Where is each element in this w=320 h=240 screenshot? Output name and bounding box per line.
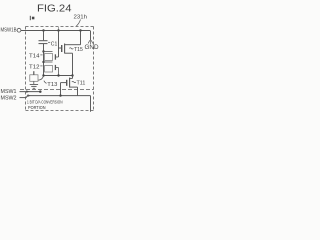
node 1a mark [30,16,34,20]
transistor T13 [30,71,44,84]
leader 231h [76,20,80,27]
wire bottom rail [27,95,91,97]
wire T15 gate feed [59,47,62,49]
node D [42,74,44,76]
svg-text:FIG.24: FIG.24 [37,2,72,14]
dashed box 231h [26,27,94,111]
node F [71,74,73,76]
label T13 [44,81,47,84]
svg-text:T11: T11 [77,80,86,86]
node G [59,94,61,96]
node A [42,29,44,31]
label T15 [69,48,73,49]
svg-text:MSW2: MSW2 [1,96,17,102]
node T12 drain [42,61,44,63]
svg-text:T13: T13 [47,82,57,88]
label C1 [48,41,50,43]
transistor T15 [62,31,81,76]
svg-text:MSW1: MSW1 [1,89,17,95]
svg-text:T15: T15 [74,47,83,53]
ground GND [88,40,93,44]
node B [57,29,59,31]
svg-text:231h: 231h [74,14,88,20]
node C [79,29,81,31]
svg-text:T14: T14 [29,53,40,59]
wire top rail [21,30,90,32]
ground T13 [30,85,38,89]
svg-text:MSW1B: MSW1B [1,28,17,34]
node T14 drain [42,50,44,52]
wire stub [58,27,60,31]
svg-text:T12: T12 [29,64,40,70]
wire left rail [43,44,45,76]
wire C1 top [43,31,45,41]
svg-text:PORTION: PORTION [28,105,46,110]
transistor T12 [44,62,59,76]
transistor T14 [44,52,59,61]
dashed divider [20,89,94,91]
wire mid vertical [58,31,60,58]
node E [57,74,59,76]
transistor T11 [61,76,78,96]
wire output drop [90,96,92,112]
capacitor C1 [39,41,48,44]
svg-text:C1: C1 [51,41,58,47]
svg-text:GND: GND [85,44,100,51]
svg-text:1 BIT D/A CONVERSION: 1 BIT D/A CONVERSION [27,99,63,104]
wire GND drop [90,31,92,41]
label T11 [72,81,76,82]
wire bottom mid rail [44,75,73,77]
